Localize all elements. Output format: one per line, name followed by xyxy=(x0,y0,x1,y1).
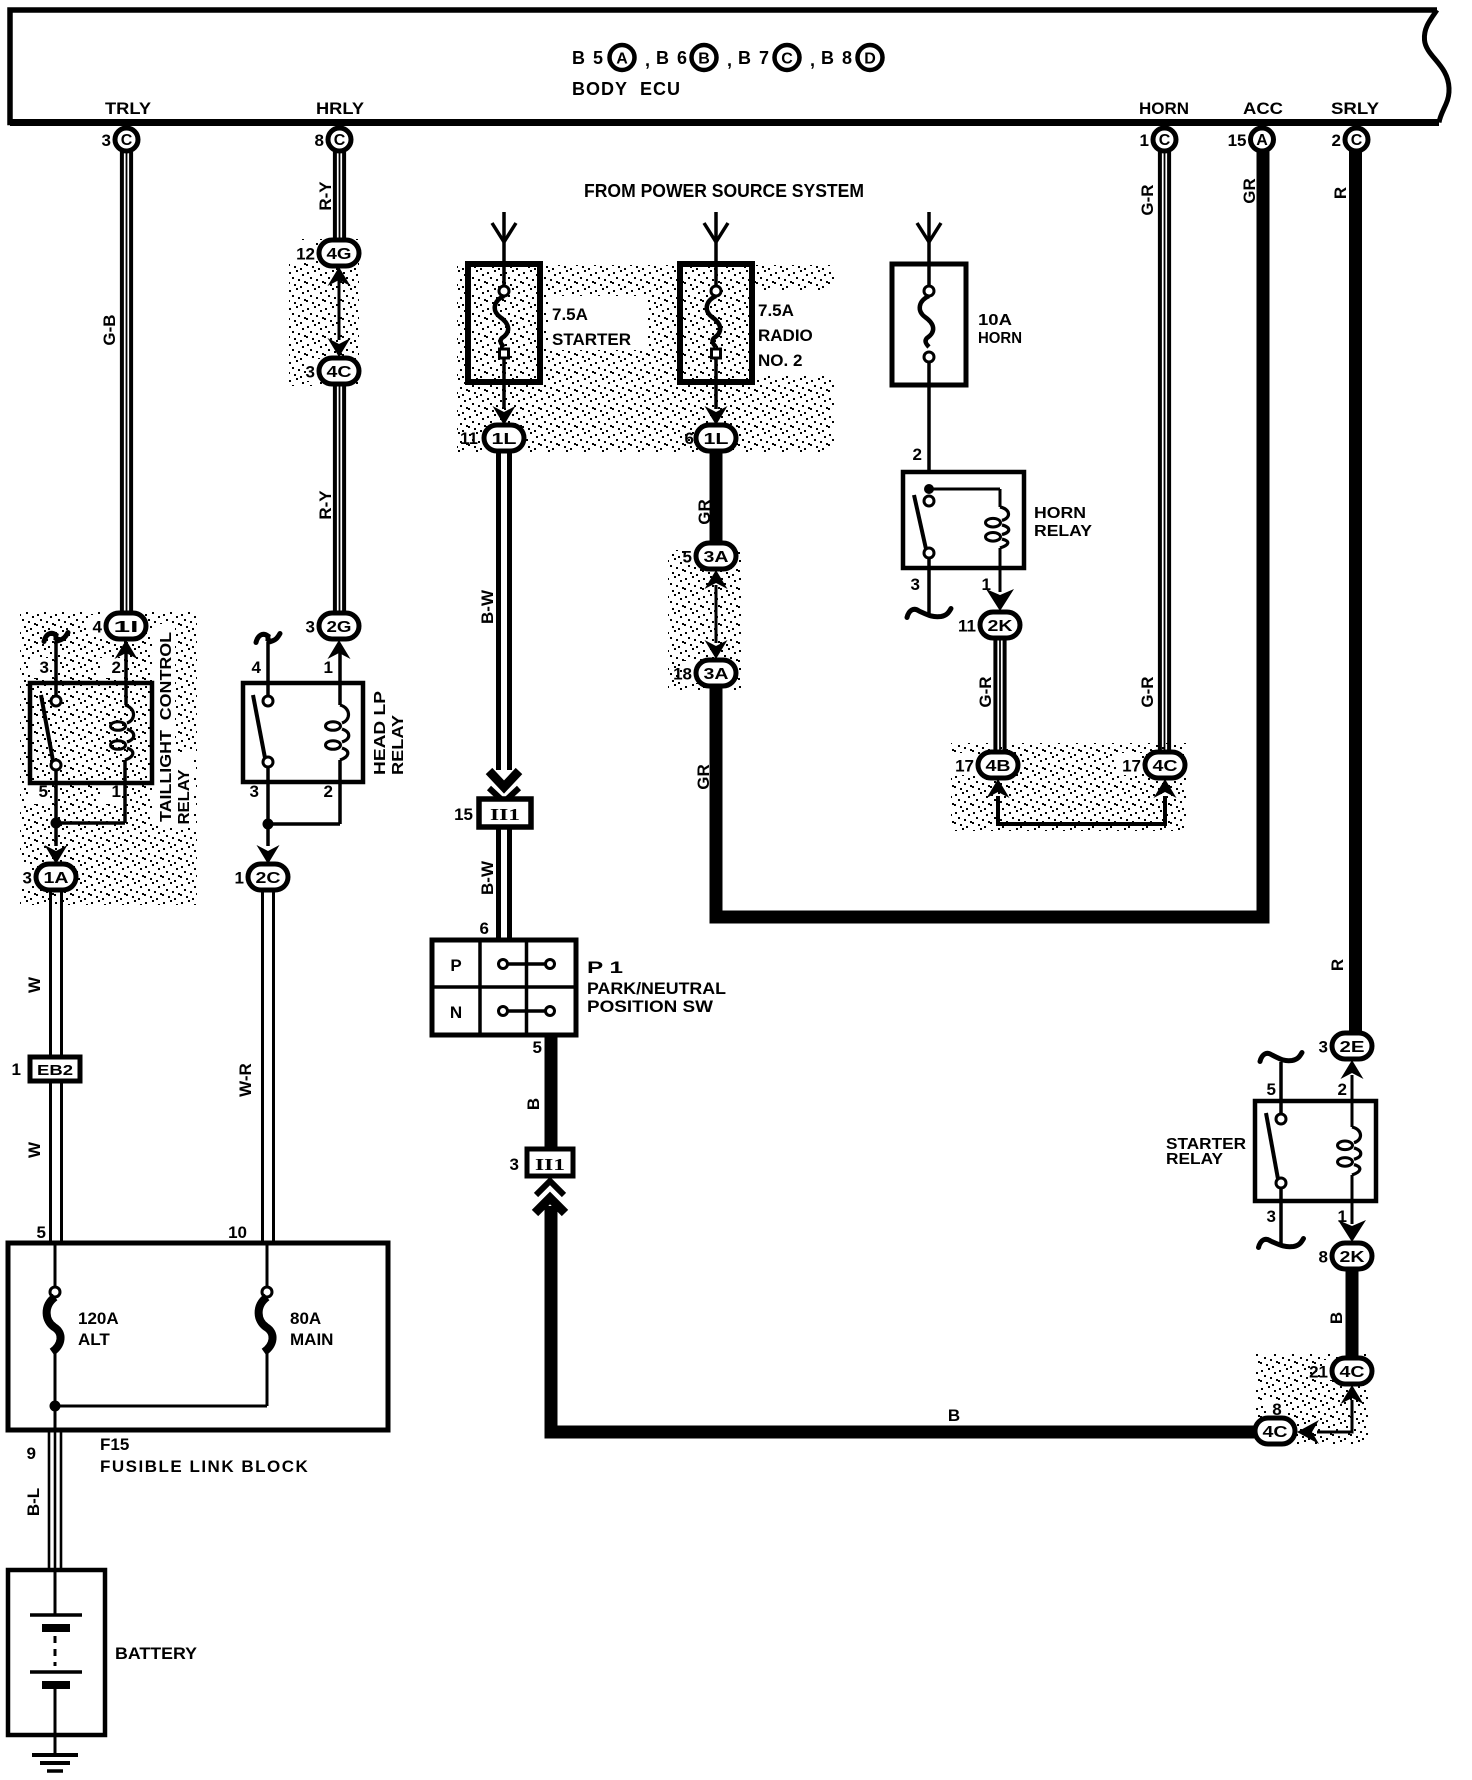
svg-text:4C: 4C xyxy=(327,364,353,381)
svg-text:B: B xyxy=(1327,1312,1346,1324)
svg-text:3A: 3A xyxy=(704,666,730,683)
svg-text:7.5A: 7.5A xyxy=(552,305,588,324)
svg-text:8: 8 xyxy=(315,131,324,150)
svg-text:5: 5 xyxy=(533,1038,542,1057)
svg-text:B 7: B 7 xyxy=(738,48,771,68)
svg-text:B-W: B-W xyxy=(478,589,497,624)
svg-text:B: B xyxy=(524,1098,543,1110)
svg-text:2: 2 xyxy=(1338,1080,1347,1099)
svg-text:1I: 1I xyxy=(114,619,139,636)
svg-text:ALT: ALT xyxy=(78,1330,110,1349)
svg-text:15: 15 xyxy=(1228,131,1247,150)
svg-text:3: 3 xyxy=(1267,1207,1276,1226)
svg-text:1: 1 xyxy=(12,1060,21,1079)
svg-text:ACC: ACC xyxy=(1243,99,1283,118)
svg-text:3: 3 xyxy=(306,618,315,637)
svg-text:7.5A: 7.5A xyxy=(758,301,794,320)
svg-text:10: 10 xyxy=(228,1223,247,1242)
svg-text:R: R xyxy=(1331,187,1350,199)
svg-text:D: D xyxy=(864,51,876,68)
svg-text:C: C xyxy=(334,132,346,149)
svg-text:5: 5 xyxy=(39,782,48,801)
svg-text:2G: 2G xyxy=(327,619,352,636)
svg-text:B 8: B 8 xyxy=(821,48,854,68)
svg-text:PARK/NEUTRAL: PARK/NEUTRAL xyxy=(587,979,726,998)
svg-text:FUSIBLE LINK BLOCK: FUSIBLE LINK BLOCK xyxy=(100,1457,309,1476)
svg-text:1: 1 xyxy=(112,782,121,801)
svg-text:C: C xyxy=(1159,132,1171,149)
svg-text:4G: 4G xyxy=(327,246,352,263)
svg-text:5: 5 xyxy=(683,548,692,567)
svg-text:5: 5 xyxy=(1267,1080,1276,1099)
svg-text:II1: II1 xyxy=(490,805,520,824)
svg-text:GR: GR xyxy=(694,764,713,790)
svg-text:BODY ECU: BODY ECU xyxy=(572,79,681,99)
svg-text:4: 4 xyxy=(252,658,262,677)
svg-text:2: 2 xyxy=(112,658,121,677)
svg-text:EB2: EB2 xyxy=(37,1062,73,1079)
svg-text:G-B: G-B xyxy=(100,314,119,345)
svg-text:2: 2 xyxy=(913,445,922,464)
svg-text:B-W: B-W xyxy=(478,860,497,895)
svg-text:W: W xyxy=(25,1141,44,1158)
svg-text:W: W xyxy=(25,976,44,993)
svg-text:17: 17 xyxy=(955,757,974,776)
svg-text:3: 3 xyxy=(40,658,49,677)
svg-text:21: 21 xyxy=(1309,1363,1328,1382)
svg-text:B 6: B 6 xyxy=(656,48,689,68)
svg-text:GR: GR xyxy=(695,499,714,525)
svg-text:4C: 4C xyxy=(1340,1364,1366,1381)
svg-text:R-Y: R-Y xyxy=(316,181,335,211)
svg-text:MAIN: MAIN xyxy=(290,1330,333,1349)
svg-text:C: C xyxy=(121,132,133,149)
svg-text:1L: 1L xyxy=(704,431,729,448)
svg-text:3: 3 xyxy=(23,869,32,888)
svg-text:80A: 80A xyxy=(290,1309,321,1328)
svg-text:4: 4 xyxy=(93,618,103,637)
svg-text:RELAY: RELAY xyxy=(1166,1151,1223,1168)
svg-text:3A: 3A xyxy=(704,549,730,566)
svg-text:1L: 1L xyxy=(492,431,517,448)
svg-text:P 1: P 1 xyxy=(587,958,623,977)
svg-text:BATTERY: BATTERY xyxy=(115,1644,198,1663)
svg-text:HEAD LP: HEAD LP xyxy=(372,691,389,775)
svg-text:SRLY: SRLY xyxy=(1331,99,1380,118)
svg-text:G-R: G-R xyxy=(1138,184,1157,215)
svg-text:1: 1 xyxy=(235,869,244,888)
svg-text:1: 1 xyxy=(1140,131,1149,150)
svg-text:18: 18 xyxy=(673,665,692,684)
svg-text:4C: 4C xyxy=(1263,1424,1289,1441)
svg-text:RELAY: RELAY xyxy=(1034,523,1092,540)
svg-text:2: 2 xyxy=(324,782,333,801)
svg-text:1: 1 xyxy=(324,658,333,677)
svg-text:,: , xyxy=(645,50,650,70)
svg-text:P: P xyxy=(450,956,461,975)
svg-text:17: 17 xyxy=(1122,757,1141,776)
svg-text:3: 3 xyxy=(250,782,259,801)
svg-text:GR: GR xyxy=(1240,178,1259,204)
svg-text:15: 15 xyxy=(454,805,473,824)
svg-text:FROM POWER SOURCE SYSTEM: FROM POWER SOURCE SYSTEM xyxy=(584,181,864,201)
svg-text:,: , xyxy=(810,50,815,70)
svg-text:2E: 2E xyxy=(1340,1039,1365,1056)
svg-text:8: 8 xyxy=(1272,1400,1281,1419)
svg-text:A: A xyxy=(1256,132,1268,149)
svg-text:4B: 4B xyxy=(986,758,1011,775)
svg-text:6: 6 xyxy=(685,429,694,448)
svg-text:A: A xyxy=(616,51,628,68)
svg-text:11: 11 xyxy=(958,617,976,636)
svg-text:2K: 2K xyxy=(988,618,1014,635)
svg-text:TAILLIGHT CONTROL: TAILLIGHT CONTROL xyxy=(158,632,175,822)
svg-text:II1: II1 xyxy=(535,1155,565,1174)
svg-text:5: 5 xyxy=(37,1223,46,1242)
svg-text:6: 6 xyxy=(480,919,489,938)
svg-text:2K: 2K xyxy=(1340,1249,1366,1266)
svg-text:12: 12 xyxy=(296,245,315,264)
svg-text:STARTER: STARTER xyxy=(552,330,631,349)
svg-text:W-R: W-R xyxy=(236,1063,255,1097)
svg-text:2C: 2C xyxy=(256,870,282,887)
svg-text:120A: 120A xyxy=(78,1309,119,1328)
svg-text:4C: 4C xyxy=(1153,758,1179,775)
svg-text:3: 3 xyxy=(306,363,315,382)
svg-text:N: N xyxy=(450,1003,462,1022)
svg-text:B-L: B-L xyxy=(24,1488,43,1516)
svg-text:11: 11 xyxy=(460,429,478,448)
svg-text:2: 2 xyxy=(1332,131,1341,150)
svg-text:TRLY: TRLY xyxy=(105,99,152,118)
svg-text:B: B xyxy=(948,1406,960,1425)
svg-text:3: 3 xyxy=(102,131,111,150)
svg-text:,: , xyxy=(727,50,732,70)
svg-text:HORN: HORN xyxy=(1034,505,1086,522)
svg-text:HORN: HORN xyxy=(978,330,1022,347)
svg-text:9: 9 xyxy=(27,1444,36,1463)
svg-text:RELAY: RELAY xyxy=(390,715,407,775)
svg-text:G-R: G-R xyxy=(1138,676,1157,707)
svg-text:R-Y: R-Y xyxy=(316,490,335,520)
svg-text:NO. 2: NO. 2 xyxy=(758,351,802,370)
svg-text:POSITION SW: POSITION SW xyxy=(587,997,714,1016)
svg-text:R: R xyxy=(1328,959,1347,971)
svg-text:RELAY: RELAY xyxy=(176,769,193,824)
svg-text:RADIO: RADIO xyxy=(758,326,813,345)
svg-text:C: C xyxy=(781,51,793,68)
svg-text:HORN: HORN xyxy=(1139,99,1189,118)
svg-text:3: 3 xyxy=(510,1155,519,1174)
svg-text:B: B xyxy=(698,51,710,68)
svg-text:G-R: G-R xyxy=(976,676,995,707)
svg-text:8: 8 xyxy=(1319,1248,1328,1267)
svg-text:C: C xyxy=(1351,132,1363,149)
svg-text:HRLY: HRLY xyxy=(316,99,365,118)
svg-text:3: 3 xyxy=(1319,1038,1328,1057)
svg-text:1A: 1A xyxy=(44,870,70,887)
svg-text:10A: 10A xyxy=(978,312,1013,329)
svg-text:F15: F15 xyxy=(100,1435,129,1454)
svg-text:B 5: B 5 xyxy=(572,48,605,68)
svg-text:3: 3 xyxy=(911,575,920,594)
